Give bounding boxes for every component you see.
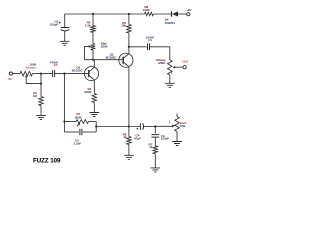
trimpot Bias 500K bbox=[91, 44, 96, 51]
node rail R5 bbox=[128, 13, 130, 15]
resistor R5 10k bbox=[127, 25, 131, 34]
potentiometer Fuzz C5k bbox=[176, 114, 178, 117]
ground fuzz bbox=[172, 142, 182, 146]
wire IN to pot bbox=[12, 73, 20, 75]
wire trimmer bottom bbox=[92, 50, 94, 60]
wire R6 to ground bbox=[128, 145, 130, 156]
wire Q1 collector bbox=[93, 60, 95, 67]
node R2 branch bbox=[63, 120, 65, 122]
node C3 junction bbox=[154, 125, 156, 127]
svg-text:220nF: 220nF bbox=[161, 137, 169, 141]
bias wiper arrow bbox=[89, 45, 92, 48]
transistor Q1 BC109C bbox=[84, 67, 98, 81]
wire to R2 bbox=[64, 121, 76, 123]
capacitor C7 470nF bbox=[53, 70, 55, 77]
svg-text:100R: 100R bbox=[143, 8, 150, 12]
svg-text:1k: 1k bbox=[149, 145, 153, 149]
svg-text:OUT: OUT bbox=[182, 60, 188, 64]
svg-text:C5k: C5k bbox=[180, 124, 186, 128]
svg-text:BC109C: BC109C bbox=[72, 68, 83, 72]
resistor R4 220R bbox=[92, 94, 97, 103]
wire R1 to ground bbox=[40, 106, 42, 116]
wire top supply rail bbox=[65, 13, 145, 15]
fuzz wiper arrow bbox=[172, 125, 175, 128]
svg-text:220R: 220R bbox=[84, 90, 91, 94]
node Q1 collector bbox=[92, 59, 94, 61]
node feedback tap bbox=[63, 73, 65, 75]
wire C7 to Q1 base bbox=[55, 73, 89, 75]
+9V terminal bbox=[187, 13, 190, 16]
wire C2 bottom branch bbox=[64, 131, 79, 133]
resistor R3 2.2k bbox=[91, 26, 96, 33]
node Q2 emitter junction bbox=[128, 125, 130, 127]
svg-text:2.2k: 2.2k bbox=[85, 23, 91, 27]
ground R6 bbox=[124, 155, 134, 159]
ground C6 bbox=[60, 41, 70, 45]
resistor R1 1M bbox=[39, 97, 44, 106]
svg-text:500K: 500K bbox=[101, 44, 108, 48]
wire rail to R5 bbox=[128, 14, 130, 25]
capacitor C2 2.2nF bbox=[80, 129, 82, 135]
wire main node to C4 bbox=[96, 126, 140, 128]
diode D4 1N4001 (cathode left) bbox=[171, 11, 173, 16]
svg-text:500K: 500K bbox=[75, 115, 82, 119]
ground volume bbox=[165, 83, 175, 87]
capacitor C1 100nF bbox=[148, 44, 150, 51]
wire feedback right vertical bbox=[95, 122, 97, 133]
wire junction down bbox=[40, 74, 42, 97]
wire pot to junction bbox=[33, 73, 42, 75]
wire junction to C1 bbox=[129, 46, 147, 48]
wire junction to C3 bbox=[154, 127, 156, 134]
ground R7 bbox=[151, 168, 161, 172]
capacitor C6 100uF electrolytic bbox=[61, 27, 70, 29]
wire collector node to Q2 base bbox=[85, 59, 124, 61]
wire feedback vertical bbox=[63, 74, 65, 132]
wire rail to R3 bbox=[92, 14, 94, 26]
svg-text:47µF: 47µF bbox=[134, 136, 141, 140]
wire volume to ground bbox=[169, 75, 171, 83]
svg-text:IN: IN bbox=[8, 77, 11, 81]
node input junction bbox=[40, 73, 42, 75]
ground R4 bbox=[90, 113, 100, 117]
potentiometer 100K Saturation bbox=[20, 71, 33, 76]
wire rail corner to C6 bbox=[64, 14, 66, 28]
saturation wiper arrow bbox=[25, 75, 27, 77]
node feedback main junction bbox=[95, 125, 97, 127]
OUT terminal bbox=[183, 66, 186, 69]
potentiometer R2 500K bbox=[76, 120, 89, 124]
svg-text:Saturation: Saturation bbox=[26, 65, 37, 69]
wire C2 to right vertical bbox=[83, 131, 96, 133]
potentiometer Volume A50K bbox=[168, 60, 173, 75]
capacitor C4 47uF polarized bbox=[139, 123, 141, 129]
svg-text:1k: 1k bbox=[123, 135, 127, 139]
wire R2 to right vertical bbox=[89, 121, 97, 123]
resistor R6 1k bbox=[128, 127, 130, 137]
transistor Q2 BC109C bbox=[119, 53, 133, 67]
svg-text:10k: 10k bbox=[121, 24, 126, 28]
wire D4 to +9V terminal bbox=[178, 13, 187, 15]
resistor R7 1k bbox=[153, 146, 158, 154]
volume wiper arrow bbox=[173, 66, 176, 69]
wire C3 to R7 bbox=[154, 137, 156, 146]
svg-text:+9V: +9V bbox=[186, 8, 191, 12]
svg-text:A50K: A50K bbox=[158, 61, 165, 65]
wire C1 to volume pot bbox=[150, 47, 170, 60]
IN terminal bbox=[9, 72, 12, 75]
svg-text:C1: C1 bbox=[148, 38, 152, 42]
wire junction to C7 bbox=[41, 73, 53, 75]
wire R3 to trimmer bbox=[92, 33, 94, 44]
node C1 junction bbox=[128, 46, 130, 48]
svg-text:1M: 1M bbox=[33, 94, 38, 98]
wire R4 to ground bbox=[93, 103, 95, 113]
wire C6 to ground bbox=[64, 31, 66, 41]
node wiper rejoin bbox=[40, 83, 42, 85]
svg-text:C7: C7 bbox=[54, 63, 58, 67]
wire fuzz to ground bbox=[176, 132, 178, 142]
wire Q1 emitter to R4 bbox=[93, 80, 95, 93]
wire R9 to D4 bbox=[154, 13, 172, 15]
wire Q2 emitter down bbox=[128, 67, 130, 127]
ground R1 bbox=[36, 115, 46, 119]
svg-text:BC109C: BC109C bbox=[106, 55, 117, 59]
wire R7 to ground bbox=[154, 154, 156, 168]
svg-text:FUZZ 109: FUZZ 109 bbox=[33, 157, 61, 164]
svg-text:100µF: 100µF bbox=[50, 22, 58, 26]
wire C4 to C3 junction bbox=[143, 126, 155, 128]
resistor R9 100R bbox=[145, 12, 154, 16]
wire R5 to Q2 collector bbox=[128, 33, 130, 53]
svg-text:2.2nF: 2.2nF bbox=[74, 142, 82, 146]
svg-text:1N4001: 1N4001 bbox=[165, 21, 176, 25]
node rail R3 bbox=[92, 13, 94, 15]
wire to fuzz wiper bbox=[155, 125, 172, 127]
capacitor C3 220nF bbox=[151, 135, 159, 138]
R2 wiper arrow bbox=[77, 124, 79, 126]
